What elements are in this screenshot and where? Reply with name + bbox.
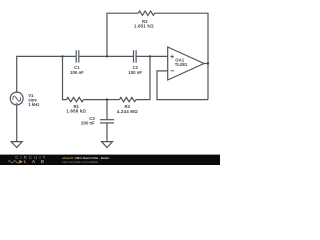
wire top right R3 to output rail <box>155 13 208 99</box>
voltage source V1 circle <box>10 92 23 105</box>
CircuitLab logo orange arrow <box>19 160 22 164</box>
ground symbol under V1 <box>11 142 22 148</box>
op-amp U1 triangle <box>168 47 204 80</box>
wire R1 to junction C <box>84 99 108 101</box>
svg-text:TL081: TL081 <box>175 62 188 67</box>
svg-text:100 nF: 100 nF <box>128 70 142 75</box>
wire junction A vertical down <box>63 56 67 99</box>
op-amp minus sign <box>171 70 175 72</box>
svg-text:4.244 MΩ: 4.244 MΩ <box>117 109 139 114</box>
wire op-amp output stub <box>204 63 208 65</box>
svg-text:http://circuitlab.com/ccs89kst: http://circuitlab.com/ccs89kst <box>62 160 98 164</box>
capacitor C3 plates <box>100 120 114 123</box>
svg-text:1.658 kΩ: 1.658 kΩ <box>66 109 86 114</box>
wire junction B vertical up <box>107 13 138 56</box>
junction node B <box>106 55 108 57</box>
wire R2 right up to + node <box>136 56 150 99</box>
svg-text:100 nF: 100 nF <box>70 70 84 75</box>
V1 minus mark <box>16 102 18 104</box>
V1 sine squiggle <box>12 94 22 103</box>
wire middle horizontal C2 to op-amp + input <box>136 55 168 57</box>
ground symbol under C3 <box>102 142 113 148</box>
CircuitLab logo wave <box>8 161 19 163</box>
resistor R1 zigzag <box>67 97 84 101</box>
wire middle horizontal left (V1 top to C1) <box>17 56 76 92</box>
svg-text:1 kHz: 1 kHz <box>28 102 39 107</box>
svg-text:200 nF: 200 nF <box>81 120 95 125</box>
wire junction C to R2 <box>107 99 120 101</box>
op-amp plus sign <box>170 55 174 59</box>
capacitor C2 plates <box>134 50 137 62</box>
junction node at output <box>207 62 209 64</box>
footer bar <box>0 155 220 165</box>
junction node at + input <box>149 55 151 57</box>
svg-text:LAB: LAB <box>24 159 50 164</box>
wire C3 stem top <box>106 100 108 120</box>
wire middle horizontal C1 to C2 <box>79 55 134 57</box>
junction node C <box>106 98 108 100</box>
resistor R2 zigzag <box>120 97 137 101</box>
junction node A <box>61 55 63 57</box>
wire C3 stem bottom to ground <box>106 123 108 141</box>
svg-text:1.651 kΩ: 1.651 kΩ <box>134 23 154 28</box>
capacitor C1 plates <box>76 50 79 62</box>
resistor R3 zigzag <box>138 11 154 15</box>
wire feedback bottom <box>157 71 208 100</box>
wire V1 bottom stem to ground <box>16 105 18 142</box>
